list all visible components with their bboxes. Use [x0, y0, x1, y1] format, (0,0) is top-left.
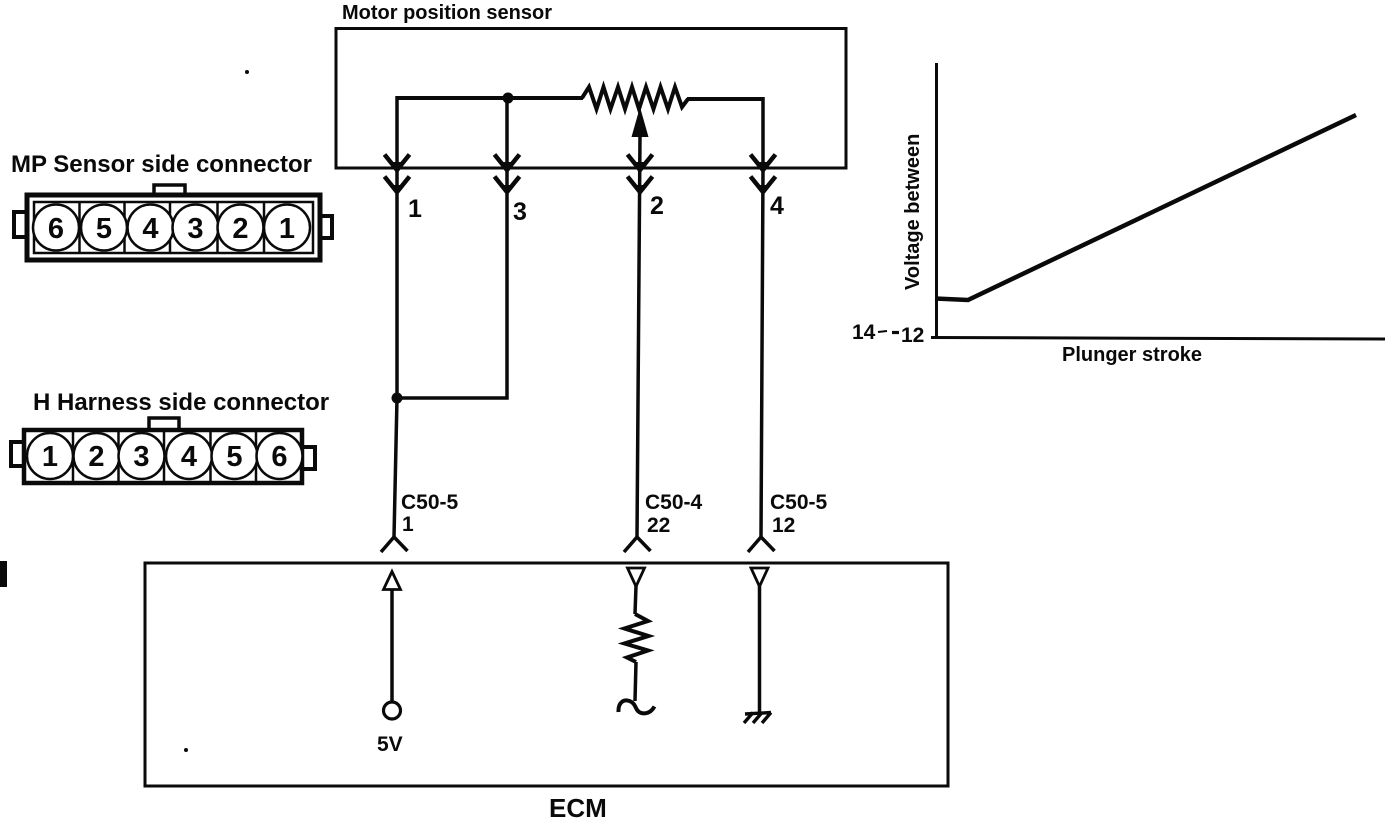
H connector pin 6 circle	[257, 433, 303, 479]
chassis ground symbol	[744, 713, 771, 724]
ECM box	[145, 563, 948, 786]
svg-text:C50-4: C50-4	[645, 491, 703, 514]
H connector pin 4 circle	[166, 433, 212, 479]
svg-text:C50-5: C50-5	[770, 491, 828, 514]
harness fork terminal, wire 1	[381, 537, 408, 552]
ECM pin terminal, wire 4 (open down triangle)	[751, 568, 768, 587]
MP connector right side tab	[321, 216, 332, 238]
MP connector pin 1 circle	[264, 205, 310, 251]
internal circuit hook (pigtail)	[618, 700, 654, 713]
H connector right side tab	[303, 447, 315, 469]
H connector top latch tab	[149, 418, 179, 429]
svg-text:3: 3	[133, 441, 149, 473]
wire 2 (wiper down to ECM)	[637, 135, 640, 537]
H connector pin 1 circle	[27, 433, 73, 479]
wire: track bus right segment	[687, 97, 763, 101]
potentiometer wiper arrow (solid, pointing up)	[632, 107, 649, 137]
svg-text:Voltage between: Voltage between	[902, 134, 924, 290]
5V supply node circle	[384, 702, 401, 719]
svg-text:5: 5	[96, 213, 112, 245]
svg-text:22: 22	[647, 514, 670, 537]
MP connector pin 2 circle	[218, 205, 264, 251]
graph curve: voltage vs plunger stroke	[935, 115, 1356, 300]
H connector cavity dividers	[73, 430, 256, 483]
motor position sensor box	[336, 29, 846, 169]
wire: ECM internal, pin 22 to resistor	[635, 586, 636, 614]
svg-text:14: 14	[852, 321, 876, 344]
wire 4 (sensor pin 4 down to ECM)	[761, 97, 763, 537]
potentiometer resistive track (resistor zigzag)	[582, 87, 688, 109]
harness fork terminal, wire 2	[624, 537, 651, 552]
svg-text:3: 3	[187, 213, 203, 245]
svg-text:4: 4	[142, 213, 158, 245]
junction dot: wire 3 on track bus	[503, 93, 514, 104]
scan speck top	[245, 70, 249, 74]
svg-text:12: 12	[901, 324, 924, 347]
scan mark left edge	[0, 561, 7, 587]
connector terminal pair, sensor pin 1	[385, 155, 410, 196]
svg-text:Plunger stroke: Plunger stroke	[1062, 344, 1202, 366]
svg-text:4: 4	[770, 192, 784, 220]
svg-text:2: 2	[650, 192, 664, 220]
wire 1 (sensor pin 1 down to ECM)	[394, 96, 397, 537]
wire 3 (sensor pin 3 down, jog left to wire 1)	[397, 98, 507, 398]
scan speck bottom	[184, 748, 188, 752]
connector terminal pair, sensor pin 3	[495, 155, 520, 196]
svg-text:3: 3	[513, 198, 527, 226]
svg-text:1: 1	[408, 195, 422, 223]
connector terminal pair, sensor pin 2	[628, 155, 653, 196]
harness fork terminal, wire 4	[748, 537, 775, 552]
MP connector cavity dividers	[80, 202, 265, 253]
svg-text:1: 1	[402, 513, 414, 536]
graph X axis	[931, 338, 1385, 340]
ECM pin terminal, wire 1 (open up triangle)	[384, 572, 401, 590]
graph Y axis	[935, 63, 938, 339]
svg-text:2: 2	[88, 441, 104, 473]
svg-text:6: 6	[271, 441, 287, 473]
wire: track bus left segment	[397, 96, 583, 100]
MP connector left side tab	[14, 212, 26, 237]
svg-text:1: 1	[42, 441, 58, 473]
wire: ECM internal, pin 12 to ground	[758, 586, 762, 713]
svg-text:H Harness side connector: H Harness side connector	[33, 389, 329, 416]
junction dot: wire 3 joins wire 1	[392, 393, 403, 404]
svg-text:1: 1	[279, 213, 295, 245]
svg-text:2: 2	[232, 213, 248, 245]
svg-text:Motor position sensor: Motor position sensor	[342, 2, 552, 24]
resistor inside ECM (pull-up)	[625, 614, 649, 662]
svg-text:MP Sensor side connector: MP Sensor side connector	[11, 151, 312, 178]
connector terminal pair, sensor pin 4	[751, 155, 776, 196]
svg-text:5V: 5V	[377, 733, 403, 756]
H harness side connector body	[24, 430, 302, 483]
wire: ECM internal, resistor to hook	[635, 662, 636, 701]
H connector pin 5 circle	[212, 433, 258, 479]
H connector left side tab	[11, 442, 23, 466]
svg-text:12: 12	[772, 514, 795, 537]
svg-text:4: 4	[181, 441, 197, 473]
MP connector pin 4 circle	[128, 205, 174, 251]
MP connector top latch tab	[154, 185, 185, 194]
svg-text:C50-5: C50-5	[401, 491, 459, 514]
svg-text:6: 6	[48, 213, 64, 245]
H connector pin 2 circle	[74, 433, 120, 479]
MP connector pin 5 circle	[81, 205, 127, 251]
MP connector pin 3 circle	[173, 205, 219, 251]
H connector pin 3 circle	[119, 433, 165, 479]
MP connector pin 6 circle	[33, 205, 79, 251]
ECM pin terminal, wire 2 (open down triangle)	[628, 568, 645, 587]
svg-text:5: 5	[226, 441, 242, 473]
wire: ECM 5V feed	[390, 590, 394, 702]
MP sensor side connector body	[27, 195, 320, 260]
svg-text:ECM: ECM	[549, 793, 607, 823]
